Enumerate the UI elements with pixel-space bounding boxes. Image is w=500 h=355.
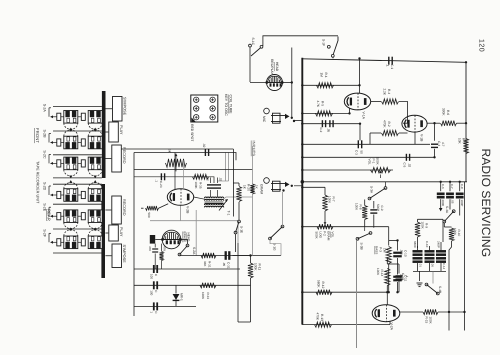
bypass rail — [302, 112, 360, 140]
svg-text:RECORD: RECORD — [122, 147, 126, 164]
switch position box RECORD (front) — [105, 145, 125, 172]
label V-1B — [420, 134, 424, 142]
wire R-4 to V-1B grid — [399, 102, 408, 124]
svg-text:.02: .02 — [202, 143, 206, 148]
label V-2B — [186, 206, 190, 214]
switch S-1F — [322, 37, 339, 59]
svg-text:10K: 10K — [458, 138, 462, 145]
wire input column — [233, 149, 239, 217]
svg-text:100K: 100K — [201, 292, 205, 299]
svg-text:P-1: P-1 — [372, 159, 376, 164]
front switch row S-2C — [42, 150, 102, 178]
svg-text:R-12: R-12 — [321, 282, 325, 289]
svg-text:C-2: C-2 — [319, 128, 323, 133]
svg-text:C-13: C-13 — [401, 273, 405, 280]
resistor R-8 — [355, 200, 368, 228]
svg-text:C-10: C-10 — [404, 250, 408, 257]
wire C-13 top — [387, 258, 399, 264]
rear wafer separator wire 1 — [53, 183, 102, 185]
wire V-1A grid drop — [359, 85, 361, 93]
valve V-2A — [372, 305, 400, 322]
svg-text:HEAD: HEAD — [187, 233, 191, 243]
rear wafer separator wire 2 — [53, 203, 102, 205]
wire V-2A cathode — [389, 321, 391, 325]
wire osc gray link — [150, 221, 238, 243]
gram jack plug — [271, 181, 302, 192]
pot P-4 — [166, 149, 187, 171]
wire R-6 to edge — [457, 122, 468, 124]
svg-text:S-3A: S-3A — [370, 186, 374, 194]
switch position box S'IMPOSE (rear) — [105, 244, 126, 268]
svg-text:S’IMPOSE: S’IMPOSE — [122, 245, 126, 264]
switch position box PLAY (front) — [105, 122, 122, 142]
screen bus (bold) — [301, 58, 303, 325]
svg-text:1M: 1M — [320, 73, 324, 78]
front wafer separator wire 3 — [53, 154, 102, 156]
svg-text:R-20: R-20 — [247, 184, 251, 191]
svg-text:1K: 1K — [255, 185, 259, 189]
bottom rail — [302, 324, 390, 326]
capacitor C-7 — [446, 181, 454, 204]
resistor R-30 — [160, 244, 167, 269]
capacitor C-12 — [425, 241, 435, 271]
wire C-8 drop — [459, 199, 461, 215]
resistor R-7 gram — [301, 186, 336, 225]
mic jack socket — [262, 108, 269, 123]
capacitor C-2 — [319, 120, 333, 132]
svg-text:C-3: C-3 — [355, 150, 359, 155]
wire oscillator top rail — [134, 153, 236, 161]
svg-text:R-7: R-7 — [462, 138, 466, 143]
wire V-2B cathode — [180, 205, 182, 220]
erase head plug — [150, 235, 162, 244]
svg-text:470: 470 — [148, 246, 152, 251]
svg-text:INPUTS: INPUTS — [251, 141, 255, 157]
svg-text:.05: .05 — [222, 262, 226, 267]
svg-text:T-1: T-1 — [226, 211, 230, 216]
front switch row S-2B — [42, 128, 102, 149]
capacitor C-8 — [456, 181, 464, 207]
svg-text:LOG: LOG — [319, 232, 323, 239]
svg-text:1M: 1M — [383, 248, 387, 253]
svg-text:100K: 100K — [453, 228, 457, 236]
svg-text:HEAD: HEAD — [275, 62, 279, 72]
switch S-1E — [234, 220, 243, 252]
switch S-4A — [443, 199, 455, 223]
rear switch row S-2E — [42, 203, 102, 231]
svg-text:S-3B: S-3B — [360, 243, 364, 250]
wire top link — [263, 36, 338, 46]
svg-text:R-15: R-15 — [425, 317, 429, 324]
svg-text:R-1: R-1 — [324, 73, 328, 78]
capacitor C-13 — [396, 264, 410, 292]
label REAR — [47, 209, 52, 221]
capacitor C-5 — [403, 154, 412, 168]
svg-text:C-9: C-9 — [380, 206, 384, 211]
label V-1A — [362, 112, 366, 120]
svg-text:KEY TO OSC: KEY TO OSC — [224, 94, 228, 116]
svg-text:470K: 470K — [316, 313, 320, 321]
capacitor C-28 rail wire — [134, 268, 240, 270]
svg-text:100K: 100K — [328, 196, 332, 204]
resistor R-1 — [317, 73, 334, 88]
HT rail top — [302, 59, 466, 63]
svg-text:P-2: P-2 — [323, 231, 327, 236]
svg-text:C-23: C-23 — [159, 181, 163, 188]
wire gray long drop — [252, 146, 254, 256]
resistor R-3B — [141, 204, 168, 218]
wire head left — [250, 82, 267, 84]
capacitor C-11 — [413, 241, 423, 271]
svg-text:C-7: C-7 — [450, 184, 454, 189]
svg-text:500K: 500K — [376, 158, 380, 166]
svg-text:MIC: MIC — [262, 116, 266, 123]
svg-text:RECORD: RECORD — [122, 199, 126, 216]
resistor R-11 — [248, 256, 262, 323]
resistor R-21 — [250, 184, 258, 194]
svg-text:R-8: R-8 — [359, 205, 363, 210]
svg-text:100K: 100K — [429, 317, 433, 325]
resistor R-7 on edge — [458, 138, 469, 154]
svg-text:BASS: BASS — [375, 246, 379, 254]
svg-text:36K: 36K — [203, 261, 207, 266]
svg-text:MR-1: MR-1 — [180, 293, 184, 301]
rear switch row S-2D — [42, 180, 102, 201]
svg-text:.02: .02 — [206, 177, 210, 182]
transformer T-1 — [205, 197, 228, 211]
gram rail — [301, 226, 389, 228]
svg-text:C-6: C-6 — [441, 184, 445, 189]
svg-text:.1: .1 — [155, 180, 159, 183]
svg-text:R-33: R-33 — [206, 293, 210, 300]
svg-text:470K: 470K — [383, 120, 387, 128]
capacitor C-29 — [150, 281, 159, 295]
switch S-2A contact — [178, 244, 196, 256]
svg-text:.05: .05 — [431, 263, 435, 267]
svg-text:100K: 100K — [254, 263, 258, 271]
svg-text:500K: 500K — [315, 232, 319, 240]
wire erase bottom rail — [180, 255, 282, 257]
svg-text:R-14: R-14 — [380, 270, 384, 277]
resistor R-9 — [415, 219, 429, 248]
wire tone cluster bottom — [413, 270, 446, 272]
switch position box S'IMPOSE (front) — [105, 97, 126, 122]
svg-text:.02: .02 — [219, 177, 223, 182]
svg-text:V-2B: V-2B — [186, 206, 190, 214]
resistor R-31 — [201, 253, 216, 268]
gram jack socket — [260, 178, 270, 195]
svg-text:ERASE: ERASE — [183, 232, 187, 243]
svg-text:V-1A: V-1A — [362, 112, 366, 120]
svg-text:4.7: 4.7 — [441, 142, 445, 147]
resistor R-5 — [316, 101, 333, 117]
svg-text:V-1B: V-1B — [420, 134, 424, 142]
wire tone upper rail — [418, 218, 444, 220]
svg-text:C-5: C-5 — [403, 163, 407, 168]
capacitor C-30 rail wire — [134, 305, 196, 307]
switch S-3A — [368, 182, 387, 200]
capacitor C-3 — [355, 140, 364, 155]
svg-text:PLAY: PLAY — [119, 227, 123, 237]
wire tone mid — [360, 182, 398, 241]
label .01 C-12 — [419, 263, 447, 270]
mic jack plug — [271, 113, 295, 123]
tone rail — [301, 180, 468, 184]
wire osc gray drop — [195, 210, 197, 256]
svg-text:R-5: R-5 — [321, 101, 325, 106]
svg-text:240P: 240P — [436, 241, 440, 248]
svg-text:REC⁄PLAY: REC⁄PLAY — [270, 59, 274, 75]
svg-text:C-10: C-10 — [425, 241, 429, 248]
wire V-1A anode feed — [358, 57, 360, 85]
svg-text:560K: 560K — [317, 280, 321, 288]
svg-text:100K: 100K — [355, 203, 359, 211]
svg-text:S-2F: S-2F — [42, 229, 46, 238]
svg-text:S-1E: S-1E — [240, 226, 244, 233]
svg-text:GRAM: GRAM — [260, 184, 264, 194]
resistor R-13 — [315, 313, 332, 328]
svg-text:S-2A: S-2A — [42, 104, 46, 113]
label T-1 — [226, 211, 230, 216]
resistor R-35 — [193, 174, 209, 188]
capacitor C-14 — [436, 219, 446, 271]
pot P-2 — [315, 224, 335, 241]
label COIL TUBE — [229, 95, 233, 115]
switch wafer bar (rear) — [101, 184, 105, 278]
wire C-20 drop 2 — [228, 153, 230, 182]
svg-text:S-1F: S-1F — [322, 39, 326, 46]
capacitor C-28 — [150, 265, 159, 279]
svg-text:PLAY: PLAY — [119, 125, 123, 135]
svg-text:100K: 100K — [376, 268, 380, 276]
capacitor C-26 — [148, 244, 158, 269]
svg-text:.01: .01 — [419, 263, 423, 267]
wire erase column rail — [133, 153, 135, 317]
svg-text:S-4A: S-4A — [445, 206, 449, 214]
svg-text:S’IMPOSE: S’IMPOSE — [123, 97, 127, 116]
svg-text:100K: 100K — [194, 182, 198, 189]
svg-text:100P: 100P — [460, 200, 464, 207]
svg-text:COIL TUBE: COIL TUBE — [229, 95, 233, 115]
svg-text:S-2C: S-2C — [42, 150, 46, 159]
svg-text:S-2D: S-2D — [42, 182, 46, 191]
svg-text:120: 120 — [478, 39, 485, 52]
wire R-15 to edge — [438, 311, 465, 313]
resistor R-12 — [316, 280, 332, 295]
rear wafer separator wire 3 — [53, 228, 102, 230]
grid resistor R-2 — [370, 120, 408, 144]
svg-text:100K: 100K — [421, 222, 425, 230]
svg-text:V-2A: V-2A — [390, 323, 394, 331]
valve V-1B — [402, 115, 427, 132]
svg-text:S-1C: S-1C — [251, 38, 255, 46]
label HEAD (erase) — [187, 233, 191, 243]
wire C-20 drop 1 — [218, 153, 229, 182]
rail S-3B — [365, 227, 389, 241]
switch S-4B — [425, 271, 442, 295]
front wafer separator wire 4 — [53, 177, 102, 179]
rectifier MR-1 — [173, 285, 184, 306]
red spot marker — [192, 118, 196, 122]
svg-text:C-14: C-14 — [442, 263, 446, 270]
valve V-1A — [344, 93, 370, 110]
svg-text:390K: 390K — [442, 108, 446, 116]
ground arrow C-6 — [439, 199, 443, 211]
svg-text:C-4: C-4 — [437, 141, 441, 146]
svg-text:47K: 47K — [163, 246, 167, 251]
wire mic to bus — [292, 48, 303, 121]
svg-text:R-13: R-13 — [320, 314, 324, 321]
capacitor C-20 pair — [206, 177, 223, 197]
switch wafer bar (front) — [102, 91, 106, 178]
resistor R-4 — [382, 89, 399, 105]
svg-text:.05: .05 — [450, 200, 454, 204]
svg-text:R-11: R-11 — [258, 264, 262, 271]
svg-text:C-8: C-8 — [460, 184, 464, 189]
svg-text:.005: .005 — [400, 249, 404, 255]
resistor R-10 — [444, 223, 461, 255]
switch S-3B — [356, 232, 372, 250]
capacitor C-30 — [150, 302, 159, 314]
rail C-3 — [302, 143, 430, 145]
anode out V-1A — [371, 101, 382, 103]
label V-2A — [390, 323, 394, 331]
output wire right — [448, 255, 450, 331]
label RED SPOT — [190, 124, 194, 141]
rear switch row S-2F — [42, 227, 102, 248]
label KEY TO OSC — [224, 94, 228, 116]
svg-text:RED SPOT: RED SPOT — [190, 124, 194, 141]
label HEAD (rec) — [275, 62, 279, 72]
capacitor C-9 — [370, 201, 384, 228]
page number 120 — [478, 39, 485, 52]
svg-text:REAR: REAR — [47, 209, 52, 221]
svg-text:R-7: R-7 — [332, 197, 336, 202]
wire plug to R-11 — [233, 254, 252, 256]
svg-text:R-31: R-31 — [208, 261, 212, 268]
resistor R-15 — [423, 309, 438, 324]
svg-text:.02: .02 — [408, 163, 412, 168]
svg-text:S-2B: S-2B — [42, 130, 46, 139]
rear wafer separator wire 4 — [53, 252, 102, 254]
front switch row S-2A — [42, 104, 102, 132]
svg-text:4.7K: 4.7K — [316, 101, 320, 108]
svg-text:50: 50 — [360, 151, 364, 155]
rail P-1 — [302, 169, 393, 171]
svg-text:R-9: R-9 — [425, 223, 429, 228]
pot P-1 — [368, 158, 391, 179]
capacitor C-1 — [386, 57, 394, 70]
svg-text:500P: 500P — [376, 204, 380, 211]
svg-text:R-35: R-35 — [199, 182, 203, 189]
wire V-2A grid — [386, 292, 388, 305]
grid rail V-2A — [302, 291, 388, 293]
svg-text:GRAM: GRAM — [327, 231, 331, 241]
svg-text:R-10: R-10 — [457, 230, 461, 237]
svg-text:S-2A: S-2A — [192, 247, 196, 255]
bus junction dots — [301, 61, 467, 313]
wire bottom left corner — [238, 243, 251, 322]
svg-text:S-4B: S-4B — [438, 286, 442, 293]
resistor R-14 — [376, 264, 390, 292]
anode out V-2A — [400, 311, 424, 313]
capacitor C-6 — [437, 181, 445, 207]
svg-text:2.2K: 2.2K — [383, 89, 387, 96]
pot P-3 bass — [375, 240, 392, 292]
svg-text:C-31: C-31 — [227, 262, 231, 269]
wire osc lower rail — [134, 177, 214, 183]
capacitor C-4 — [431, 141, 445, 157]
capacitor C-31 — [222, 251, 231, 269]
svg-text:TAPE RECORDER UNIT: TAPE RECORDER UNIT — [36, 161, 40, 204]
coupling cap C-4 wire — [434, 123, 436, 141]
switch S-1G — [269, 192, 284, 256]
label INPUTS — [251, 141, 255, 157]
capacitor C-29 rail wire — [134, 284, 251, 286]
wire osc mid rail — [134, 168, 253, 170]
wire V-2B grid lead — [183, 160, 185, 189]
svg-text:R-4: R-4 — [387, 89, 391, 94]
svg-text:R-2: R-2 — [387, 122, 391, 127]
capacitor C-22 — [202, 143, 209, 156]
label REC/PLAY — [270, 59, 274, 75]
svg-text:R-6: R-6 — [446, 110, 450, 115]
wire erase head to switch — [181, 240, 188, 245]
rail C-5 — [302, 156, 434, 158]
svg-text:500: 500 — [147, 213, 151, 218]
running head RADIO SERVICING — [479, 149, 493, 258]
svg-text:.1: .1 — [386, 64, 390, 67]
wire V-1B cathode — [414, 132, 416, 145]
wire S-3B feed — [356, 240, 358, 348]
svg-text:100: 100 — [150, 290, 154, 295]
front wafer separator wire 1 — [53, 105, 102, 107]
valve V-2B — [167, 189, 193, 206]
label TAPE RECORDER UNIT — [36, 161, 40, 204]
resistor R-6 — [441, 108, 457, 126]
HT right edge wire — [465, 62, 467, 182]
svg-text:FRONT: FRONT — [35, 128, 40, 143]
grid rail V-1A — [302, 84, 359, 86]
svg-text:.1: .1 — [405, 275, 409, 278]
svg-text:S-1G: S-1G — [273, 243, 277, 251]
erase head — [161, 230, 182, 249]
svg-text:.05: .05 — [327, 128, 331, 133]
svg-text:100: 100 — [150, 274, 154, 279]
label FRONT — [35, 128, 40, 143]
record/play head — [265, 75, 283, 91]
switch position box PLAY (rear) — [105, 225, 122, 241]
capacitor C-10 — [393, 240, 407, 293]
oscillator coil terminal board — [191, 95, 218, 122]
cathode rail V-1A — [302, 109, 349, 114]
capacitor C-23 — [155, 173, 165, 188]
label ERASE — [183, 232, 187, 243]
wire T-1 to bus — [194, 197, 253, 199]
svg-text:6800: 6800 — [413, 241, 417, 248]
resistor R-33 — [200, 283, 216, 300]
wire record-box feed — [121, 148, 233, 150]
wire V-2B anode lead — [174, 153, 176, 190]
svg-text:RADIO SERVICING: RADIO SERVICING — [479, 149, 493, 258]
svg-text:2000: 2000 — [441, 200, 445, 207]
front wafer separator wire 2 — [53, 130, 102, 132]
switch S-1C — [249, 38, 263, 83]
svg-text:S-2E: S-2E — [42, 203, 46, 212]
switch position box RECORD (rear) — [105, 196, 125, 224]
feedback wire right — [464, 182, 466, 331]
svg-text:VOL: VOL — [331, 232, 335, 238]
